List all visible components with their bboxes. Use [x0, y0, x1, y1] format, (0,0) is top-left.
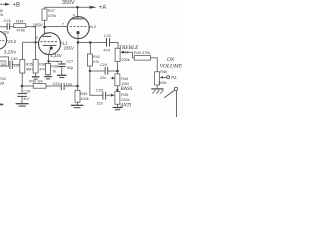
resistor R43 [134, 56, 150, 61]
resistor R35 [20, 60, 25, 73]
tube AL1 (triode V2) [39, 33, 61, 55]
triode tube1 (left edge, clipped) [0, 31, 7, 49]
wiper arrow pot2 [111, 94, 115, 97]
svg-text:C23: C23 [53, 82, 60, 86]
wire R43 to volume [151, 58, 158, 72]
svg-text:1,33V: 1,33V [50, 53, 62, 58]
resistor R36 [33, 60, 38, 73]
wiper arrow R46 [160, 76, 163, 79]
wire to R39 [22, 85, 33, 87]
wire R35 to bottom node [21, 73, 23, 86]
node bottom of R35 [21, 85, 24, 88]
cathode lead tube2 [49, 49, 51, 61]
switch contact [174, 87, 177, 90]
capacitor C22 [106, 38, 108, 47]
svg-text:R40: R40 [80, 92, 87, 96]
svg-text:C25: C25 [96, 89, 103, 93]
ground under C26 [16, 103, 29, 105]
svg-text:470k: 470k [16, 28, 25, 33]
svg-text:7: 7 [44, 31, 46, 35]
wire R39 to C23 [46, 85, 61, 87]
svg-text:4n7: 4n7 [23, 97, 29, 101]
cathode dot tube3 [76, 31, 79, 34]
svg-text:4M7: 4M7 [26, 67, 33, 71]
grid tube3 (dashed) [70, 26, 87, 28]
wire anode2 to grid3 [45, 26, 68, 28]
wire to C22 [90, 41, 106, 43]
volume pot R46 [155, 72, 160, 85]
anode lead tube2 [44, 28, 46, 33]
wire C41 to R34 [10, 26, 14, 28]
svg-text:R36: R36 [39, 62, 46, 66]
svg-text:100k: 100k [0, 13, 3, 17]
wire into C41 [0, 26, 7, 28]
resistor R41 [89, 42, 91, 54]
svg-text:C41: C41 [4, 18, 12, 23]
capacitor C25 [102, 92, 104, 100]
svg-text:7k: 7k [52, 70, 56, 74]
svg-text:R38: R38 [51, 65, 58, 69]
node R41 bottom [89, 70, 91, 72]
svg-text:R37: R37 [48, 9, 55, 13]
svg-text:265V: 265V [64, 45, 74, 50]
node grid2 junction [34, 41, 36, 43]
ground under C27 [57, 74, 67, 76]
wire down to R35 [21, 42, 23, 59]
svg-text:1M2: 1M2 [0, 63, 7, 67]
svg-text:350V: 350V [62, 0, 75, 6]
capacitor C24 [104, 67, 106, 75]
svg-text:500k: 500k [158, 81, 166, 85]
wire grid2 [22, 41, 38, 43]
svg-text:R45: R45 [121, 93, 128, 97]
resistor R37 [44, 7, 46, 9]
treble pot R42 [115, 48, 120, 61]
anode lead tube3 [76, 7, 78, 18]
ground under R45 [116, 104, 118, 107]
svg-text:470: 470 [103, 48, 110, 53]
anode plate tube3 [72, 18, 83, 20]
svg-text:C40: C40 [11, 57, 18, 61]
capacitor C41 [6, 23, 8, 30]
resistor R33 (left edge box) [0, 57, 9, 66]
svg-text:ON: ON [167, 57, 175, 63]
node R41 top [89, 41, 92, 44]
svg-text:+B: +B [13, 3, 21, 9]
ground under R38 [44, 76, 52, 78]
ground under R40 [71, 104, 84, 106]
arrow +A [90, 6, 97, 9]
capacitor C40 [9, 61, 11, 69]
wire C25 to wiper arrow [106, 94, 111, 96]
wiper arrow R42 [120, 51, 123, 54]
svg-text:R35: R35 [26, 62, 33, 66]
wire C24 to node [108, 70, 118, 72]
svg-text:50µ: 50µ [67, 66, 74, 70]
wiper arrow R44 [112, 77, 115, 80]
node cathode3 [77, 41, 80, 44]
pot R45 [115, 92, 120, 105]
svg-text:VOLUME: VOLUME [160, 63, 183, 69]
svg-text:R34: R34 [16, 18, 24, 23]
tube AL4 (output tube) [67, 17, 89, 39]
svg-text:R46: R46 [160, 70, 167, 74]
node between pots [116, 86, 118, 92]
wire to C24 [90, 70, 105, 72]
ground under R36 [35, 73, 37, 77]
wire cathode to C27 [50, 61, 62, 64]
wire cathode3 right [78, 41, 90, 43]
svg-text:V3.2: V3.2 [7, 39, 17, 44]
svg-text:C22: C22 [104, 33, 112, 38]
svg-text:R43 470k: R43 470k [134, 51, 150, 55]
node bass top [116, 70, 119, 73]
rail 350V [45, 6, 90, 8]
wire R34 to grid column [26, 27, 36, 43]
cathode dot tube2 [50, 46, 53, 49]
wire switch down [176, 91, 178, 117]
svg-text:R41: R41 [93, 55, 100, 59]
wire down to R36 [35, 42, 37, 59]
chassis ground volume [156, 85, 158, 89]
svg-text:C27: C27 [66, 60, 73, 64]
svg-text:100k: 100k [80, 97, 88, 101]
resistor R39 [33, 84, 46, 89]
wire +B lead [0, 3, 5, 5]
bass pot R44 [115, 74, 120, 86]
svg-text:1M: 1M [0, 81, 4, 85]
svg-text:22n: 22n [97, 101, 103, 105]
svg-text:47k: 47k [93, 60, 99, 64]
left edge mark [0, 104, 3, 106]
node R40 top [76, 85, 79, 88]
svg-text:200k: 200k [121, 58, 129, 62]
cathode resistor R38 [47, 60, 49, 62]
svg-text:R44: R44 [121, 77, 128, 81]
switch lever [164, 90, 174, 97]
wire C22 to treble [110, 42, 118, 48]
svg-text:R32: R32 [0, 77, 6, 81]
svg-text:220k: 220k [121, 98, 129, 102]
svg-text:C24: C24 [100, 63, 107, 67]
capacitor C23 [60, 83, 62, 90]
capacitor C26 [21, 87, 23, 93]
wire R42 bottom [117, 62, 119, 74]
wire C40 to R35 [13, 64, 20, 66]
terminal P2 [167, 76, 170, 79]
svg-text:C26: C26 [23, 90, 30, 94]
resistor R34 [14, 24, 26, 28]
svg-text:P2.: P2. [171, 75, 177, 80]
svg-text:R42: R42 [122, 50, 129, 54]
anode plate tube2 [42, 35, 51, 37]
wire cathode3 down [77, 44, 79, 87]
node anode2 [43, 26, 46, 29]
cathode lead tube3 [77, 34, 79, 42]
wire R41 node down [90, 71, 103, 95]
svg-text:BASS: BASS [120, 86, 132, 92]
wire C23 to node [64, 85, 77, 87]
svg-text:2: 2 [36, 36, 38, 40]
svg-text:22n: 22n [100, 76, 106, 80]
grid tube2 (dashed) [40, 41, 57, 43]
svg-text:470k: 470k [48, 14, 56, 18]
svg-text:R39 1M: R39 1M [29, 80, 42, 84]
svg-text:185V: 185V [33, 22, 43, 27]
svg-text:ø4.2: ø4.2 [88, 24, 97, 29]
svg-text:7: 7 [62, 21, 65, 26]
svg-text:+A: +A [99, 5, 107, 11]
cathode tube2 [43, 44, 57, 46]
svg-text:a: a [73, 13, 75, 17]
svg-text:3,25V: 3,25V [4, 49, 17, 55]
arrow +B [5, 3, 10, 6]
svg-text:7: 7 [45, 52, 47, 56]
node anode3 rail [76, 6, 79, 9]
resistor R40 [77, 86, 79, 90]
